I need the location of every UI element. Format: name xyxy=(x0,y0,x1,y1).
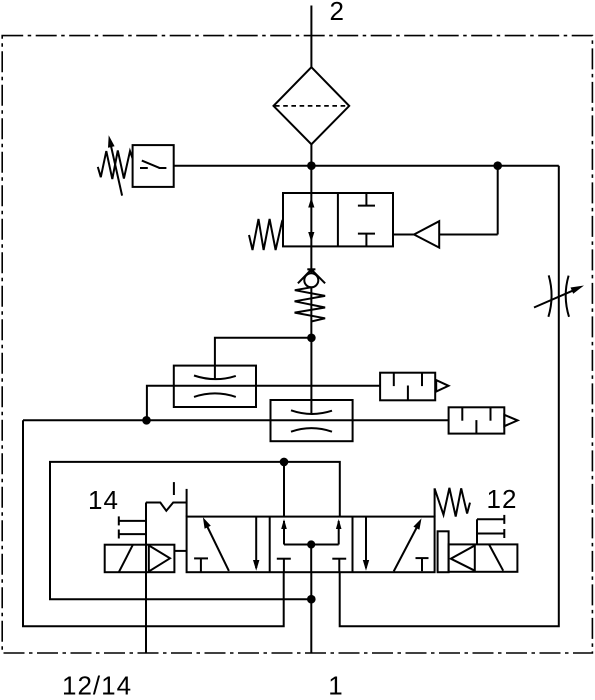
V1 pilot line and pilot triangle xyxy=(393,166,498,248)
adjustable throttle TH1 xyxy=(534,275,584,316)
flow sensor / throttle B1 xyxy=(174,366,256,407)
junction centre square xyxy=(307,540,315,548)
wire exhaust line upper (through B1 to silencer) xyxy=(147,386,380,421)
filter/water separator F1 xyxy=(274,67,350,144)
V1 return spring xyxy=(249,219,283,250)
svg-text:2: 2 xyxy=(330,0,344,26)
label 12 xyxy=(487,484,518,514)
soft-start 2/2 valve V1 body xyxy=(283,193,393,246)
junction main node xyxy=(307,161,316,170)
adjustment arrow of pressure switch xyxy=(108,135,122,195)
check valve CV1 xyxy=(298,269,325,287)
main 5/3 valve body xyxy=(187,488,435,572)
wire outer exhaust loop (left) xyxy=(23,420,284,626)
valve square 1 flow paths xyxy=(194,517,259,573)
port 2 label xyxy=(330,0,344,26)
silencer S3 (lower) xyxy=(449,407,518,433)
wire exhaust line lower (outer loop top, through B2 to silencer) xyxy=(23,419,449,421)
label port 1 xyxy=(328,671,342,700)
adjustable spring of pressure switch xyxy=(98,151,133,180)
manual override (left) xyxy=(146,482,187,511)
wire branch to flow sensor B1 xyxy=(215,338,312,380)
wire inner working loop xyxy=(50,462,340,599)
wire pilot supply 12/14 vertical xyxy=(145,503,147,653)
V1 flow path arrows (left square) xyxy=(308,198,314,243)
spring seat xyxy=(438,531,449,572)
silencer S2 (upper) xyxy=(380,373,448,401)
wire main supply horizontal xyxy=(174,165,559,167)
wire pilot 12 path (right side with throttle) xyxy=(340,166,559,627)
return spring (right end) xyxy=(435,488,470,517)
solenoid pilot Y1 (14 side) xyxy=(105,545,187,573)
electrical connector Y2 xyxy=(477,515,504,545)
wire main vertical lower (check valve to node) xyxy=(310,287,312,338)
junction port 1 xyxy=(307,595,316,604)
wire port 1 vertical xyxy=(310,572,312,653)
label 14 xyxy=(88,485,119,515)
wire port 2 stub xyxy=(310,6,312,68)
junction working loop top xyxy=(280,458,289,467)
svg-text:14: 14 xyxy=(88,485,119,515)
svg-text:12: 12 xyxy=(487,484,518,514)
pressure switch S1 xyxy=(133,145,174,187)
wire filter to main node xyxy=(310,144,312,165)
wire main vertical to flow sensor B2 xyxy=(310,338,312,414)
V1 blocked ports (right square) xyxy=(358,193,375,246)
check valve spring xyxy=(295,287,326,321)
wire main vertical upper (through soft-start valve) xyxy=(310,166,312,269)
svg-text:1: 1 xyxy=(328,671,342,700)
label port 12/14 xyxy=(62,671,132,700)
flow sensor / throttle B2 xyxy=(271,400,353,441)
electrical connector Y1 xyxy=(119,516,146,538)
valve square 3 flow paths xyxy=(363,517,429,572)
junction pilot takeoff xyxy=(493,161,502,170)
svg-text:12/14: 12/14 xyxy=(62,671,132,700)
valve square 2 (centre) flow paths xyxy=(277,519,346,572)
junction below check valve xyxy=(307,334,316,343)
junction 12/14 branch xyxy=(142,416,151,425)
solenoid pilot Y2 (12 side) xyxy=(449,544,518,571)
